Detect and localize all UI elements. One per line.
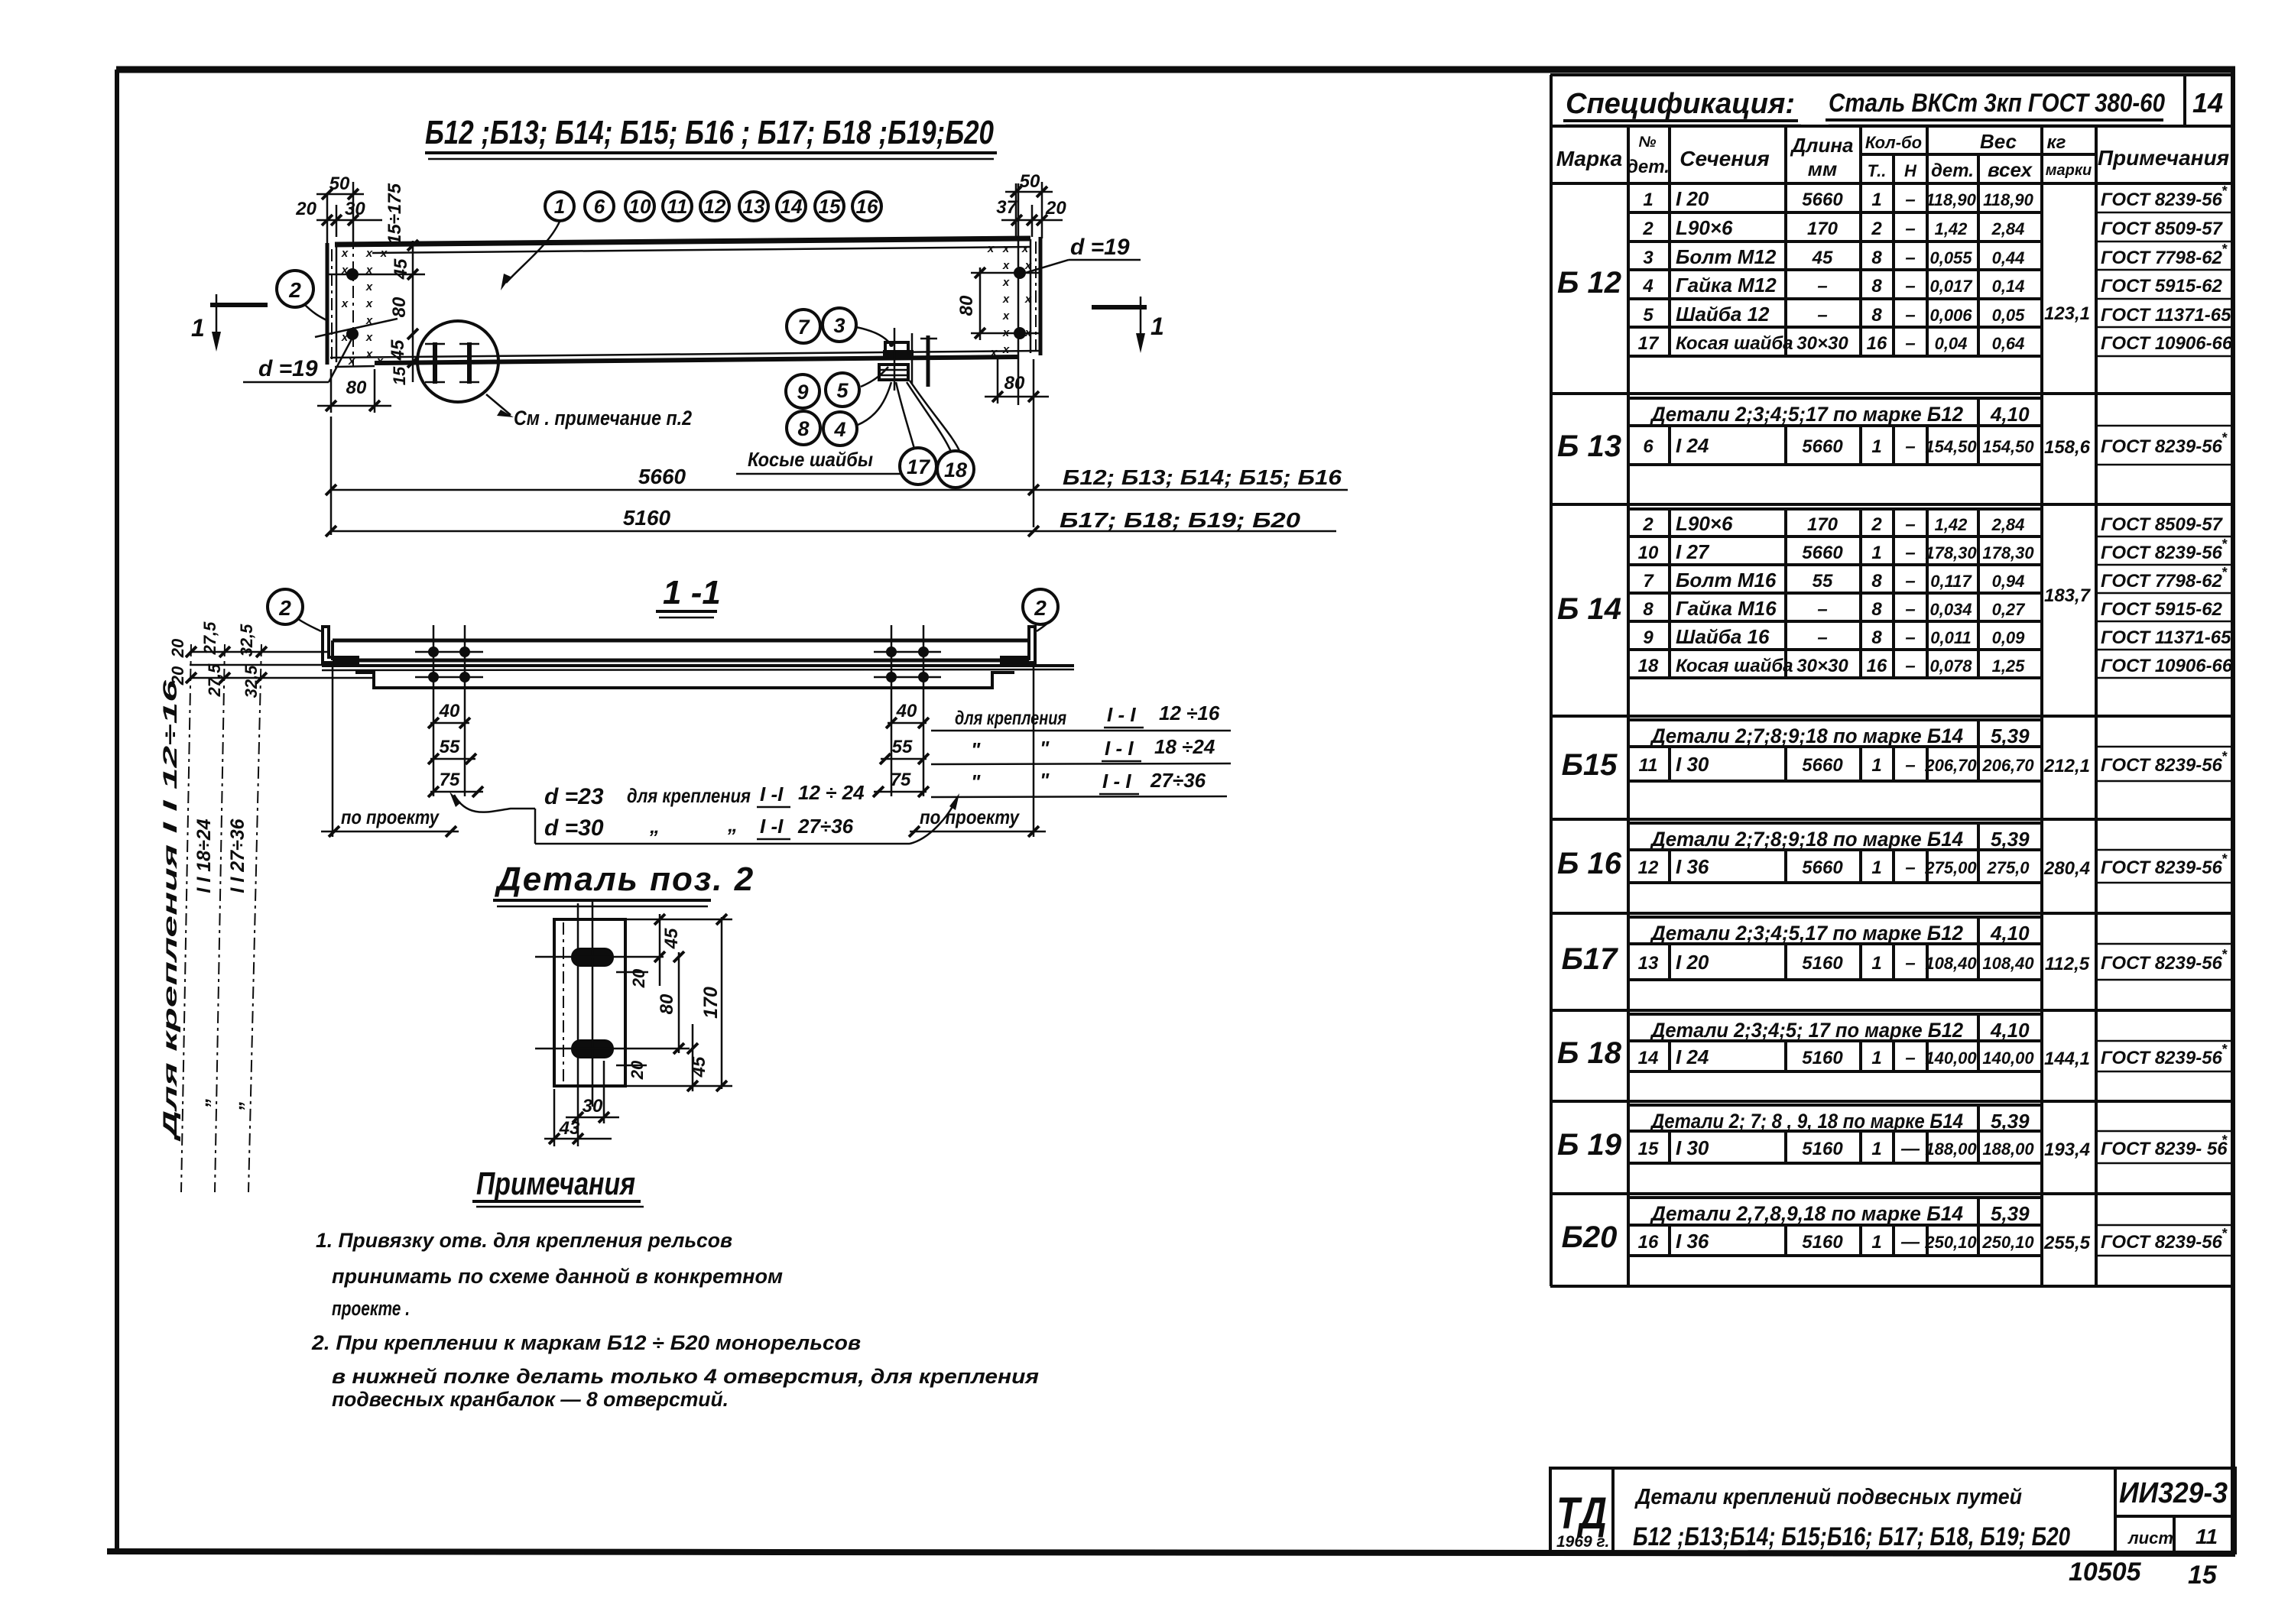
svg-text:L90×6: L90×6 (1676, 216, 1733, 239)
svg-text:L90×6: L90×6 (1676, 512, 1733, 535)
centerlines (535, 902, 690, 1146)
svg-text:15: 15 (1638, 1139, 1659, 1159)
svg-text:27,5: 27,5 (205, 663, 224, 698)
svg-text:32,5: 32,5 (237, 624, 256, 657)
svg-text:Болт М12: Болт М12 (1676, 245, 1777, 268)
svg-text:158,6: 158,6 (2044, 437, 2091, 458)
svg-text:„: „ (225, 1100, 246, 1111)
slot holes (571, 948, 614, 1058)
sheet numbers (2069, 1558, 2218, 1590)
svg-text:27÷36: 27÷36 (1150, 769, 1206, 792)
notes title (472, 1165, 644, 1207)
svg-text:ГОСТ 8239-56: ГОСТ 8239-56 (2101, 857, 2223, 878)
svg-text:Детали 2;3;4;5; 17 по марке: Детали 2;3;4;5; 17 по марке Б12 (1650, 1019, 1963, 1042)
svg-text:x: x (1021, 242, 1029, 255)
svg-text:5,39: 5,39 (1991, 1202, 2030, 1225)
right end plate (1030, 237, 1040, 355)
po proektu right (909, 663, 1046, 837)
svg-text:–: – (1905, 857, 1915, 878)
svg-text:13: 13 (1638, 953, 1659, 974)
svg-text:Кол-бо: Кол-бо (1865, 133, 1922, 152)
svg-text:183,7: 183,7 (2044, 585, 2092, 606)
svg-text:1: 1 (554, 195, 565, 218)
svg-text:2. При креплении к маркам: 2. При креплении к маркам Б12 ÷ Б20 моно… (311, 1331, 861, 1354)
svg-text:8: 8 (1871, 627, 1882, 648)
svg-text:5660: 5660 (1802, 436, 1843, 457)
bolt dims right 40 55 75 (873, 701, 929, 797)
svg-text:–: – (1905, 276, 1915, 297)
svg-text:d =23: d =23 (544, 784, 604, 809)
fastening variants mini table (931, 702, 1231, 797)
svg-text:–: – (1905, 305, 1915, 326)
svg-text:x: x (1002, 343, 1010, 356)
svg-text:ГОСТ 10906-66: ГОСТ 10906-66 (2101, 333, 2233, 354)
svg-text:x: x (1024, 259, 1032, 272)
svg-text:123,1: 123,1 (2044, 303, 2090, 324)
svg-text:x: x (365, 247, 373, 260)
svg-text:45: 45 (388, 339, 408, 361)
svg-text:–: – (1905, 543, 1915, 563)
right inner dim 80 (956, 267, 985, 340)
svg-text:5160: 5160 (1802, 1048, 1843, 1068)
svg-text:Детали креплений подвесных: Детали креплений подвесных путей (1634, 1485, 2022, 1509)
svg-text:*: * (2221, 1042, 2228, 1057)
left vertical dims 45 80 45 15 (385, 183, 418, 385)
svg-text:18: 18 (1638, 656, 1659, 676)
svg-text:8: 8 (797, 417, 809, 440)
svg-text:Б15: Б15 (1562, 748, 1618, 782)
svg-text:17: 17 (1638, 333, 1660, 354)
d=23 d=30 annotation (449, 781, 959, 844)
svg-text:–: – (1905, 953, 1915, 974)
svg-text:0,011: 0,011 (1930, 628, 1971, 647)
svg-text:55: 55 (1813, 571, 1833, 592)
weld marks right (987, 242, 1032, 359)
svg-text:ГОСТ 8239-56: ГОСТ 8239-56 (2101, 190, 2223, 210)
svg-text:ГОСТ 8239- 56: ГОСТ 8239- 56 (2101, 1139, 2228, 1159)
svg-text:Гайка М16: Гайка М16 (1676, 597, 1777, 620)
svg-text:Гайка М12: Гайка М12 (1676, 274, 1777, 297)
svg-text:Детали 2;3;4;5;17 по марке Б1: Детали 2;3;4;5;17 по марке Б12 (1650, 403, 1963, 426)
section title (656, 574, 721, 618)
right bolt holes (971, 183, 1040, 405)
svg-text:—: — (1900, 1139, 1920, 1159)
svg-text:Б 12: Б 12 (1557, 266, 1621, 300)
B13 block (1628, 398, 2233, 465)
svg-text:Б20: Б20 (1562, 1220, 1618, 1254)
svg-text:5660: 5660 (1802, 190, 1843, 210)
svg-text:марки: марки (2046, 162, 2092, 179)
svg-text:5160: 5160 (1802, 1232, 1843, 1253)
svg-text:154,50: 154,50 (1982, 437, 2034, 456)
svg-text:43: 43 (559, 1118, 580, 1139)
svg-text:15÷175: 15÷175 (385, 183, 405, 245)
detail pos 2 group (493, 861, 755, 1146)
wide flange lines (322, 666, 1074, 670)
svg-text:Б12 ;Б13;Б14; Б15;Б16; Б17; Б1: Б12 ;Б13;Б14; Б15;Б16; Б17; Б18, Б19; Б2… (1633, 1522, 2070, 1551)
svg-text:": " (971, 770, 981, 793)
svg-text:I 30: I 30 (1676, 1136, 1709, 1159)
d=19 left (243, 336, 353, 382)
svg-text:I 20: I 20 (1676, 951, 1709, 974)
svg-text:Косая шайба: Косая шайба (1676, 656, 1793, 676)
svg-text:1: 1 (1871, 543, 1881, 563)
svg-text:I I 27÷36: I I 27÷36 (227, 818, 248, 893)
svg-text:20: 20 (1045, 198, 1066, 219)
svg-text:188,00: 188,00 (1982, 1139, 2034, 1159)
lower flange hat (355, 673, 1014, 688)
svg-text:дет.: дет. (1627, 157, 1670, 177)
svg-text:206,70: 206,70 (1981, 756, 2034, 775)
svg-text:—: — (1900, 1232, 1920, 1253)
svg-text:250,10: 250,10 (1924, 1233, 1977, 1252)
svg-text:275,00: 275,00 (1924, 858, 1977, 877)
bottom dim 80 left (317, 369, 391, 413)
svg-text:5160: 5160 (1802, 953, 1843, 974)
svg-text:108,40: 108,40 (1982, 954, 2034, 973)
svg-text:14: 14 (1638, 1048, 1659, 1068)
svg-text:30×30: 30×30 (1796, 333, 1848, 354)
svg-text:Марка: Марка (1556, 147, 1622, 170)
rail clamp assembly (879, 328, 937, 391)
svg-text:4: 4 (1642, 276, 1653, 297)
svg-text:d =19: d =19 (1070, 235, 1130, 260)
svg-text:–: – (1905, 1048, 1915, 1068)
bubbles 9 5 (786, 367, 888, 408)
svg-text:в нижней полке делать: в нижней полке делать только 4 отверстия… (332, 1365, 1039, 1388)
svg-text:2: 2 (1642, 219, 1654, 239)
svg-text:170: 170 (700, 987, 722, 1019)
svg-text:Б12 ;Б13; Б14; Б15; Б16 ; Б17;: Б12 ;Б13; Б14; Б15; Б16 ; Б17; Б18 ;Б19;… (425, 114, 994, 151)
beam top view group (191, 114, 1348, 536)
svg-text:I -I: I -I (760, 783, 784, 806)
svg-text:6: 6 (1643, 436, 1654, 457)
svg-text:9: 9 (1643, 627, 1654, 648)
svg-text:5160: 5160 (623, 506, 671, 530)
svg-text:5,39: 5,39 (1991, 1110, 2030, 1133)
bolt dims left 40 55 75 (428, 701, 483, 797)
svg-text:x: x (341, 297, 349, 310)
svg-text:27,5: 27,5 (200, 621, 219, 656)
svg-text:212,1: 212,1 (2043, 756, 2090, 776)
bubbles 17 18 (896, 381, 974, 488)
block boundary lines (1550, 394, 2233, 1194)
svg-text:Сечения: Сечения (1679, 147, 1770, 170)
top plate (333, 640, 1029, 660)
section 1-1 group (160, 574, 1231, 1192)
svg-text:30: 30 (583, 1096, 603, 1117)
left bolt holes (315, 237, 425, 367)
svg-text:140,00: 140,00 (1982, 1049, 2034, 1068)
drawing title (425, 114, 997, 159)
svg-text:x: x (376, 355, 384, 368)
svg-text:2,84: 2,84 (1991, 515, 2025, 534)
section cut mark left (191, 294, 268, 352)
weld marks left (341, 247, 388, 368)
svg-text:Длина: Длина (1790, 134, 1854, 157)
kosye shaiby label (736, 448, 901, 474)
B19 block (1628, 1105, 2233, 1163)
svg-text:x: x (341, 247, 349, 260)
left top dims 50 20 30 (295, 173, 382, 245)
dims right side (616, 914, 732, 1091)
svg-text:108,40: 108,40 (1925, 954, 1977, 973)
svg-text:8: 8 (1871, 248, 1882, 268)
svg-text:*: * (2221, 1133, 2228, 1148)
svg-text:16: 16 (856, 195, 878, 218)
svg-text:5160: 5160 (1802, 1139, 1843, 1159)
bubbles 8 4 (787, 382, 891, 446)
svg-text:„: „ (649, 815, 660, 838)
svg-text:16: 16 (1867, 656, 1887, 676)
bolt group right (874, 625, 941, 796)
svg-text:12 ÷16: 12 ÷16 (1159, 702, 1220, 724)
svg-text:10: 10 (1638, 543, 1659, 563)
svg-text:x: x (1002, 259, 1010, 272)
svg-text:4,10: 4,10 (1990, 403, 2030, 426)
svg-text:20: 20 (168, 638, 187, 658)
svg-text:20: 20 (629, 968, 648, 988)
svg-text:0,14: 0,14 (1992, 277, 2025, 296)
svg-text:178,30: 178,30 (1925, 543, 1977, 562)
svg-text:4,10: 4,10 (1990, 1019, 2030, 1042)
svg-text:15: 15 (390, 366, 409, 385)
svg-text:*: * (2221, 241, 2228, 257)
svg-text:2: 2 (278, 596, 291, 620)
svg-text:ГОСТ 7798-62: ГОСТ 7798-62 (2101, 571, 2223, 592)
rotated top labels (168, 621, 261, 699)
svg-text:1: 1 (1871, 755, 1881, 776)
circle 2 right (1023, 589, 1058, 631)
svg-text:ИИ329-3: ИИ329-3 (2119, 1477, 2228, 1509)
svg-text:Б 18: Б 18 (1557, 1036, 1622, 1070)
mark labels column (1557, 266, 1622, 1254)
svg-text:8: 8 (1871, 276, 1882, 297)
svg-text:Б12; Б13; Б14; Б15; Б16: Б12; Б13; Б14; Б15; Б16 (1063, 465, 1342, 489)
svg-text:I - I: I - I (1105, 737, 1134, 760)
svg-text:I 30: I 30 (1676, 753, 1709, 776)
notes group (311, 1165, 1039, 1411)
svg-text:I I 18÷24: I I 18÷24 (193, 818, 215, 893)
svg-text:0,27: 0,27 (1992, 600, 2027, 619)
svg-text:ГОСТ 7798-62: ГОСТ 7798-62 (2101, 248, 2223, 268)
svg-text:1,42: 1,42 (1935, 219, 1968, 238)
svg-text:10: 10 (629, 195, 651, 218)
svg-text:мм: мм (1808, 157, 1837, 180)
svg-text:6: 6 (594, 195, 605, 218)
svg-text:–: – (1905, 219, 1915, 239)
svg-text:8: 8 (1871, 305, 1882, 326)
svg-text:80: 80 (346, 378, 367, 398)
svg-text:*: * (2221, 430, 2228, 446)
svg-text:Б17; Б18; Б19; Б20: Б17; Б18; Б19; Б20 (1060, 508, 1301, 532)
leader from bubble 1 (501, 222, 560, 290)
svg-text:45: 45 (689, 1056, 709, 1078)
svg-text:Вес: Вес (1980, 130, 2017, 153)
svg-text:": " (1040, 737, 1050, 760)
svg-text:1: 1 (1871, 436, 1881, 457)
svg-text:Косые шайбы: Косые шайбы (748, 448, 873, 471)
svg-text:0,05: 0,05 (1992, 306, 2026, 325)
svg-text:–: – (1905, 627, 1915, 648)
svg-text:Детали 2;7;8;9;18 по марке Б1: Детали 2;7;8;9;18 по марке Б14 (1650, 724, 1963, 747)
svg-text:x: x (365, 331, 373, 344)
beam body horizontal lines (330, 238, 1040, 367)
table header texts (1556, 87, 2229, 181)
svg-text:8: 8 (1643, 599, 1654, 620)
svg-text:I - I: I - I (1107, 703, 1136, 726)
svg-text:–: – (1817, 305, 1827, 326)
bottom dims 30 43 (544, 1061, 619, 1146)
svg-text:Сталь ВКСт 3кп ГОСТ 380-60: Сталь ВКСт 3кп ГОСТ 380-60 (1829, 89, 2165, 118)
dimension 5660 (326, 417, 1348, 535)
svg-text:Детали 2; 7; 8 , 9, 18 по ма: Детали 2; 7; 8 , 9, 18 по марке Б14 (1650, 1110, 1963, 1133)
svg-text:16: 16 (1638, 1232, 1659, 1253)
angle left pos2 (323, 627, 358, 663)
svg-text:2: 2 (1871, 514, 1882, 535)
svg-text:кг: кг (2047, 132, 2066, 153)
rotated fastening labels (160, 679, 248, 1142)
svg-text:3: 3 (1643, 248, 1654, 268)
svg-text:40: 40 (896, 701, 917, 721)
detail title (493, 861, 755, 906)
svg-text:ГОСТ 5915-62: ГОСТ 5915-62 (2101, 599, 2223, 620)
level ticks left margin (186, 647, 374, 683)
svg-text:1: 1 (191, 314, 205, 342)
svg-text:–: – (1905, 755, 1915, 776)
B20 block (1628, 1198, 2233, 1256)
svg-text:80: 80 (1004, 373, 1025, 394)
svg-text:80: 80 (389, 297, 410, 317)
svg-text:206,70: 206,70 (1924, 756, 1977, 775)
svg-text:ГОСТ 8239-56: ГОСТ 8239-56 (2101, 436, 2223, 457)
svg-text:170: 170 (1807, 219, 1839, 239)
svg-text:2,84: 2,84 (1991, 219, 2025, 238)
svg-text:x: x (365, 348, 373, 361)
svg-text:14: 14 (781, 195, 803, 218)
svg-text:x: x (365, 280, 373, 293)
svg-text:55: 55 (892, 737, 913, 757)
svg-text:x: x (1002, 293, 1010, 306)
svg-text:проекте .: проекте . (332, 1297, 410, 1320)
B18 block (1628, 1014, 2233, 1071)
svg-text:ГОСТ 8239-56: ГОСТ 8239-56 (2101, 543, 2223, 563)
svg-text:–: – (1905, 333, 1915, 354)
B15 block (1628, 720, 2233, 781)
title block group (1550, 1468, 2235, 1590)
svg-text:5,39: 5,39 (1991, 724, 2030, 747)
svg-text:по проекту: по проекту (341, 806, 440, 828)
svg-text:Н: Н (1904, 161, 1917, 180)
svg-text:15: 15 (819, 195, 841, 218)
svg-text:ГОСТ 5915-62: ГОСТ 5915-62 (2101, 276, 2223, 297)
svg-text:I 20: I 20 (1676, 187, 1709, 210)
svg-text:I 36: I 36 (1676, 1230, 1709, 1253)
svg-text:для крепления: для крепления (955, 708, 1066, 729)
section cut mark right (1092, 297, 1164, 353)
svg-text:5660: 5660 (1802, 857, 1843, 878)
svg-text:3: 3 (833, 314, 845, 337)
svg-text:5660: 5660 (1802, 755, 1843, 776)
svg-text:лист: лист (2127, 1528, 2173, 1548)
svg-text:x: x (380, 247, 388, 260)
frame (1550, 1468, 2235, 1553)
svg-text:12: 12 (704, 195, 726, 218)
svg-text:Шайба 12: Шайба 12 (1676, 303, 1770, 326)
svg-text:140,00: 140,00 (1925, 1049, 1977, 1068)
svg-text:5,39: 5,39 (1991, 828, 2030, 851)
svg-text:27÷36: 27÷36 (797, 815, 854, 838)
dimension 5160 (326, 506, 1336, 536)
svg-text:Шайба 16: Шайба 16 (1676, 625, 1770, 648)
svg-text:*: * (2221, 851, 2228, 867)
svg-text:ГОСТ 11371-65: ГОСТ 11371-65 (2101, 627, 2231, 648)
svg-text:40: 40 (439, 701, 460, 721)
svg-text:–: – (1817, 599, 1827, 620)
svg-text:188,00: 188,00 (1925, 1139, 1977, 1159)
svg-text:ГОСТ 8239-56: ГОСТ 8239-56 (2101, 755, 2223, 776)
svg-text:118,90: 118,90 (1926, 190, 1976, 209)
title texts (1633, 1485, 2070, 1551)
svg-text:1969 г.: 1969 г. (1556, 1533, 1609, 1551)
doc number (2119, 1477, 2228, 1548)
svg-text:Примечания: Примечания (476, 1165, 635, 1201)
svg-text:": " (1040, 769, 1050, 792)
svg-text:1: 1 (1871, 1232, 1881, 1253)
svg-text:–: – (1905, 248, 1915, 268)
B14 block rows (1628, 509, 2233, 678)
bubbles 7 3 (787, 308, 894, 347)
svg-text:1: 1 (1871, 1139, 1881, 1159)
svg-text:11: 11 (1639, 755, 1658, 776)
TD logo (1556, 1489, 1609, 1551)
svg-text:–: – (1905, 656, 1915, 676)
svg-text:ТД: ТД (1556, 1489, 1607, 1538)
svg-text:118,90: 118,90 (1983, 190, 2033, 209)
svg-text:30×30: 30×30 (1796, 656, 1848, 676)
svg-text:1: 1 (1871, 1048, 1881, 1068)
svg-text:–: – (1817, 627, 1827, 648)
svg-text:0,44: 0,44 (1992, 248, 2025, 267)
svg-text:x: x (1002, 276, 1010, 289)
svg-text:Детали 2;7;8;9;18 по марке Б1: Детали 2;7;8;9;18 по марке Б14 (1650, 828, 1963, 851)
svg-text:9: 9 (797, 381, 808, 404)
svg-text:50: 50 (1020, 171, 1040, 192)
svg-text:80: 80 (657, 994, 677, 1014)
svg-text:178,30: 178,30 (1982, 543, 2034, 562)
svg-text:275,0: 275,0 (1986, 858, 2030, 877)
svg-text:Детали 2,7,8,9,18 по марке: Детали 2,7,8,9,18 по марке Б14 (1650, 1202, 1963, 1225)
svg-text:*: * (2221, 1226, 2228, 1241)
svg-text:дет.: дет. (1931, 160, 1974, 181)
svg-text:0,117: 0,117 (1930, 572, 1972, 591)
svg-text:7: 7 (797, 316, 810, 339)
svg-text:170: 170 (1807, 514, 1839, 535)
svg-text:I 24: I 24 (1676, 1045, 1709, 1068)
svg-text:12 ÷ 24: 12 ÷ 24 (798, 781, 865, 804)
svg-text:18 ÷24: 18 ÷24 (1154, 735, 1215, 758)
right top dims 50 37 20 (996, 171, 1066, 238)
svg-text:1: 1 (1643, 190, 1653, 210)
svg-text:См . примечание п.2: См . примечание п.2 (514, 407, 692, 430)
svg-text:5: 5 (1643, 305, 1654, 326)
svg-text:I 24: I 24 (1676, 434, 1709, 457)
circle 2 callout (277, 271, 328, 321)
svg-text:": " (971, 738, 981, 761)
svg-text:37: 37 (996, 197, 1017, 218)
svg-text:Спецификация:: Спецификация: (1566, 88, 1795, 120)
see note detail circle (417, 321, 692, 430)
